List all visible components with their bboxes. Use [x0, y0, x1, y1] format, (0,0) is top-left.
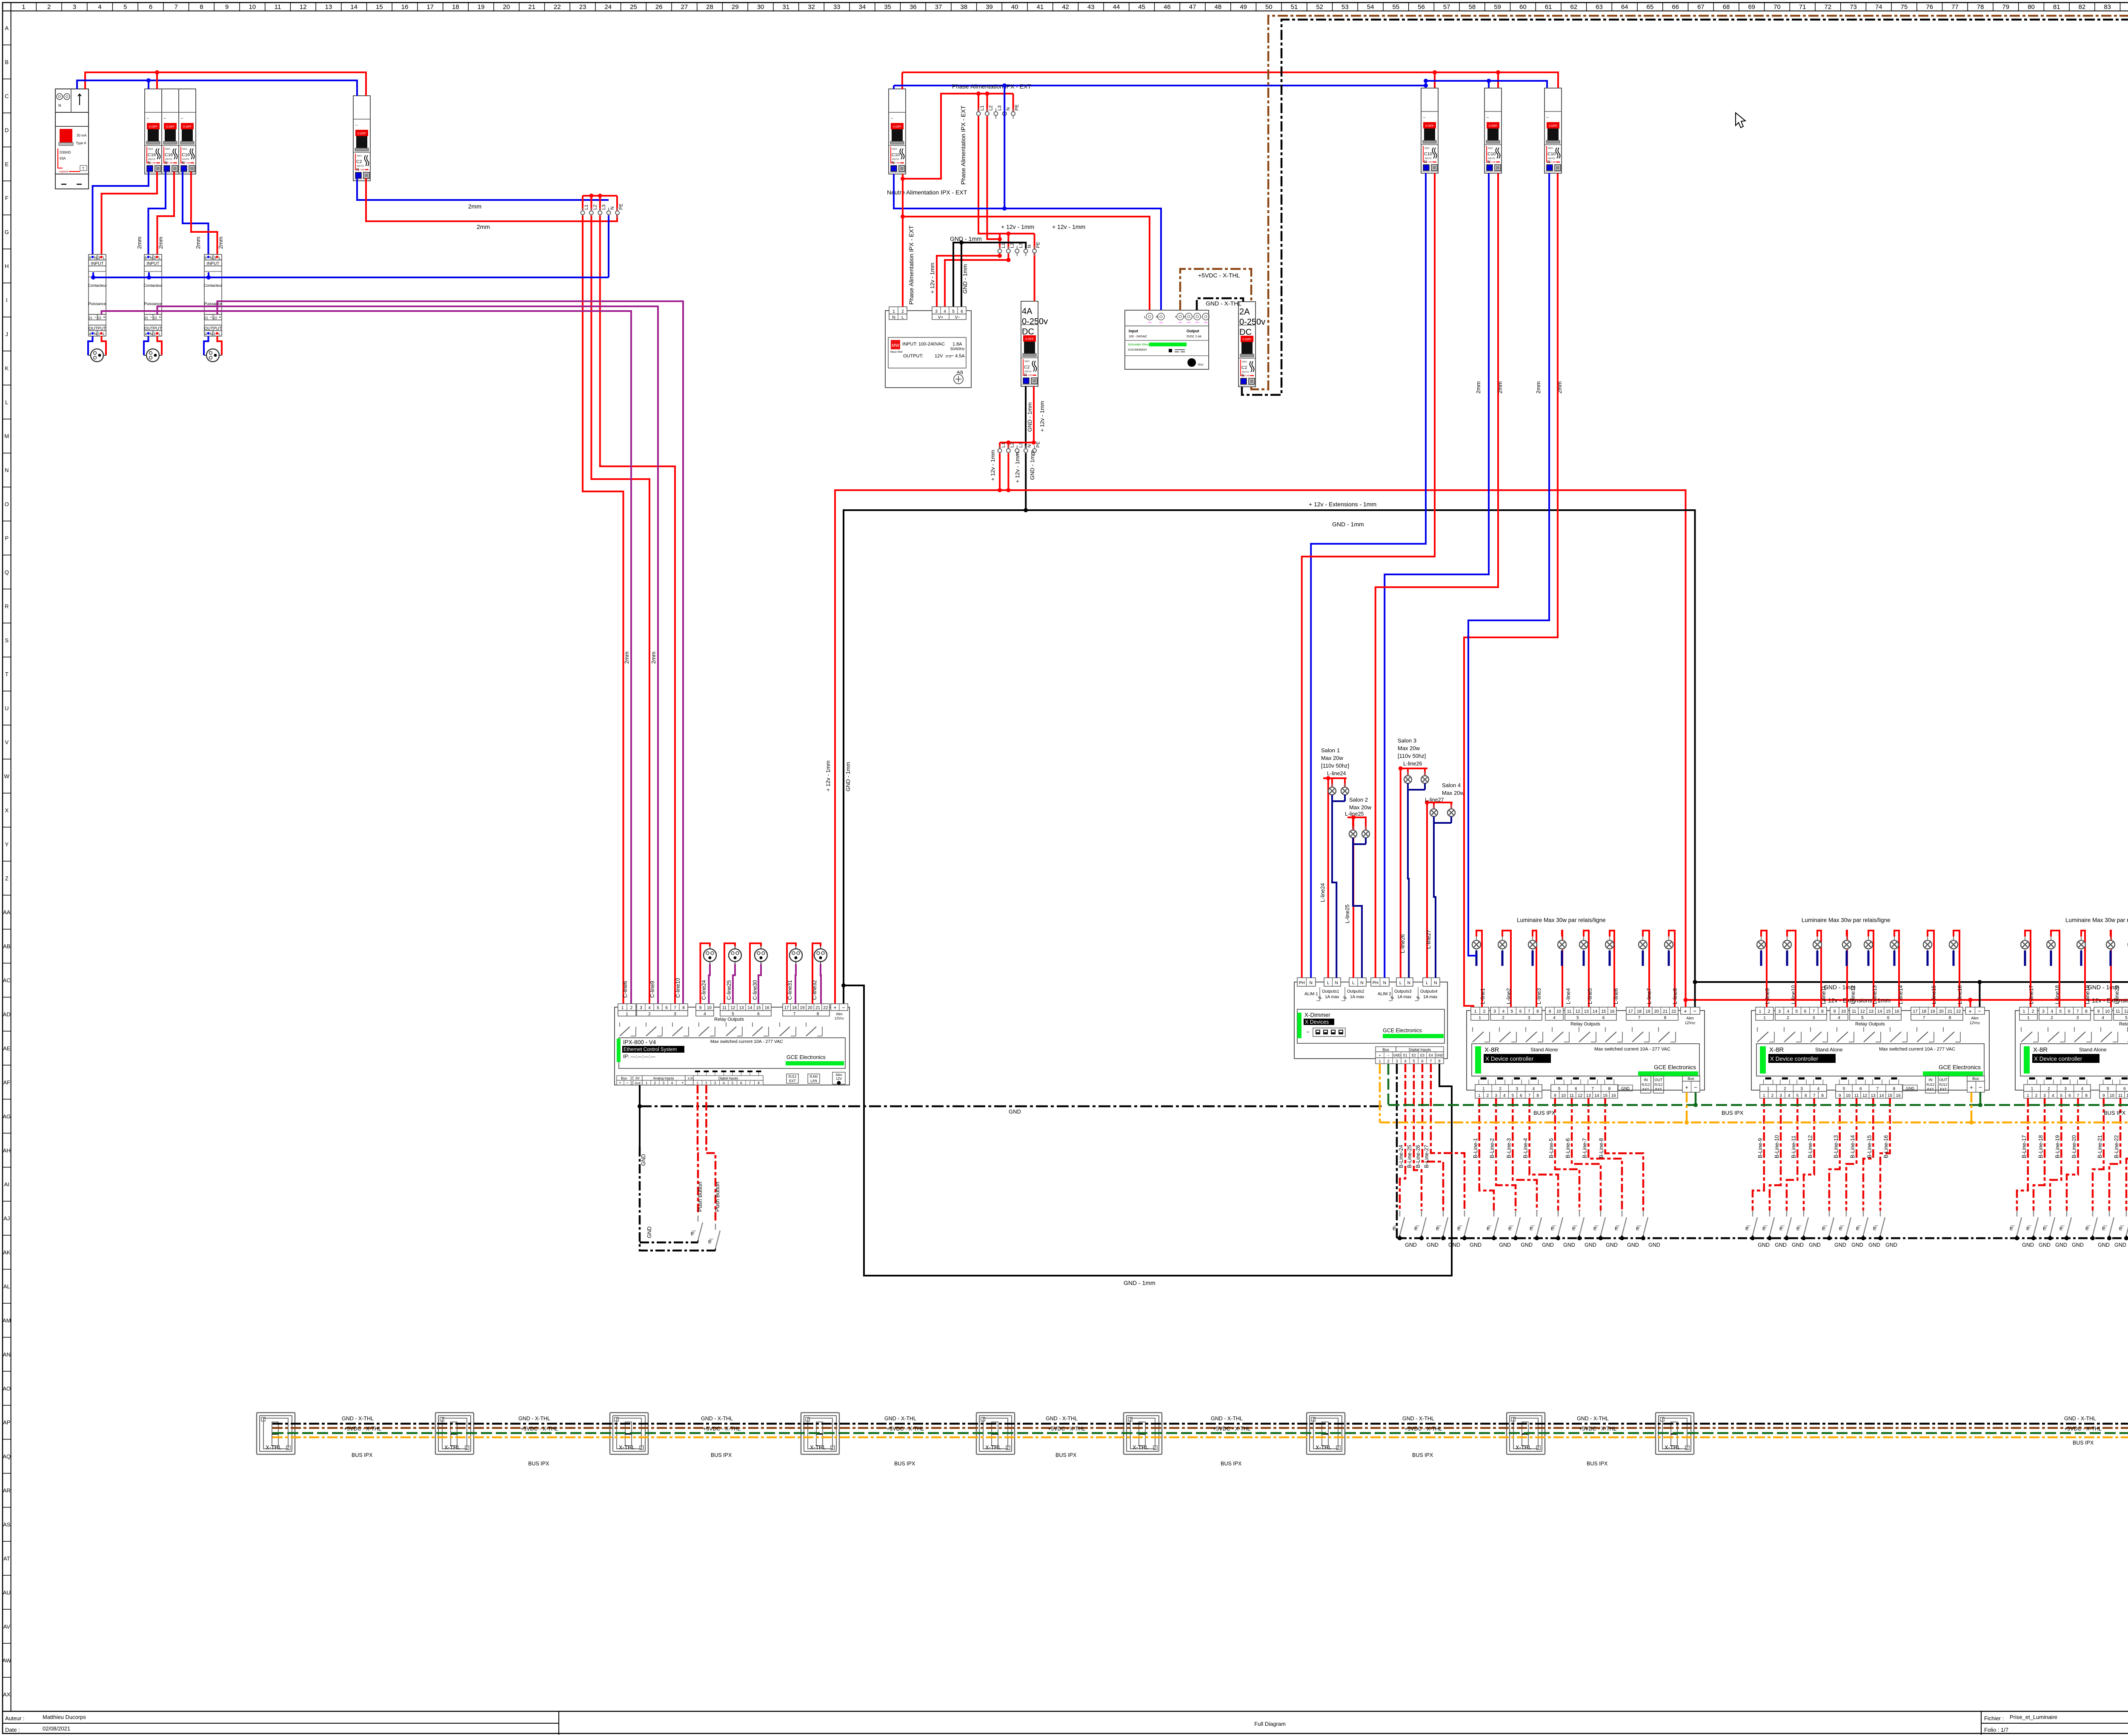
- svg-text:16: 16: [401, 3, 409, 11]
- svg-text:5: 5: [2107, 1087, 2109, 1091]
- svg-text:3: 3: [1495, 1094, 1497, 1098]
- svg-text:4: 4: [1404, 1059, 1406, 1063]
- svg-text:IN: IN: [1929, 1078, 1933, 1082]
- svg-text:B-Line-13: B-Line-13: [1833, 1135, 1839, 1158]
- svg-text:63: 63: [1596, 3, 1603, 11]
- svg-text:1A max: 1A max: [1325, 995, 1339, 999]
- svg-text:PE: PE: [1036, 441, 1041, 448]
- svg-text:22: 22: [1671, 1009, 1676, 1014]
- svg-text:N: N: [1407, 981, 1410, 985]
- svg-text:E: E: [1414, 1226, 1417, 1231]
- svg-text:Contacteur: Contacteur: [143, 283, 162, 288]
- svg-text:~: ~: [1423, 115, 1425, 120]
- svg-text:64: 64: [1621, 3, 1628, 11]
- svg-text:2: 2: [1499, 1087, 1502, 1091]
- svg-text:+5VDC - X-THL: +5VDC - X-THL: [1198, 272, 1240, 279]
- svg-text:9A63: 9A63: [1424, 147, 1430, 150]
- svg-text:V−: V−: [955, 315, 961, 320]
- svg-text:Matthieu Ducorps: Matthieu Ducorps: [43, 1714, 86, 1720]
- svg-text:9: 9: [1554, 1094, 1556, 1098]
- svg-text:DC: DC: [1022, 327, 1034, 337]
- svg-text:1: 1: [1482, 1087, 1485, 1091]
- svg-text:MW: MW: [892, 343, 899, 348]
- svg-text:X-THL: X-THL: [1316, 1444, 1332, 1450]
- svg-text:11: 11: [722, 1006, 727, 1011]
- svg-text:AG: AG: [3, 1113, 11, 1119]
- svg-text:0 OFF: 0 OFF: [183, 126, 192, 128]
- svg-text:N: N: [1024, 373, 1027, 377]
- svg-text:C-line10: C-line10: [675, 978, 681, 998]
- svg-text:U: U: [5, 705, 9, 711]
- svg-text:RJ12: RJ12: [1939, 1083, 1948, 1087]
- svg-text:22: 22: [823, 1006, 828, 1011]
- svg-text:Outputs3: Outputs3: [1394, 989, 1412, 994]
- svg-text:0 OFF: 0 OFF: [1425, 125, 1434, 128]
- svg-text:INPUT: INPUT: [91, 262, 104, 266]
- svg-text:AF: AF: [3, 1079, 10, 1085]
- svg-text:I: I: [6, 297, 8, 303]
- svg-text:5: 5: [1512, 1094, 1514, 1098]
- svg-text:11: 11: [1567, 1009, 1572, 1014]
- svg-text:3: 3: [2042, 1009, 2045, 1014]
- svg-text:L-line15: L-line15: [1931, 985, 1937, 1004]
- svg-text:E: E: [2026, 1226, 2029, 1231]
- svg-text:L-line24: L-line24: [1327, 771, 1346, 777]
- svg-text:GND - X-THL: GND - X-THL: [2064, 1416, 2096, 1422]
- svg-text:11: 11: [2118, 1094, 2123, 1098]
- svg-text:EXT: EXT: [789, 1079, 796, 1083]
- svg-text:3: 3: [2064, 1087, 2067, 1091]
- svg-text:Q: Q: [5, 569, 9, 575]
- svg-text:AB: AB: [3, 943, 10, 950]
- svg-text:4: 4: [1553, 1016, 1556, 1020]
- svg-text:33: 33: [833, 3, 841, 11]
- svg-text:Puissance: Puissance: [89, 302, 106, 306]
- svg-text:Salon 2: Salon 2: [1349, 797, 1368, 803]
- svg-text:30: 30: [757, 3, 764, 11]
- svg-text:Neutre Alimentation IPX - EXT: Neutre Alimentation IPX - EXT: [887, 189, 967, 196]
- svg-text:N: N: [1434, 981, 1437, 985]
- svg-text:1: 1: [892, 309, 895, 314]
- svg-text:B-Line-2: B-Line-2: [1489, 1138, 1495, 1158]
- svg-text:X-THL: X-THL: [985, 1444, 1001, 1450]
- svg-text:B-Line-5: B-Line-5: [1548, 1138, 1554, 1158]
- svg-text:L-line26: L-line26: [1403, 761, 1422, 767]
- svg-text:E: E: [1856, 1226, 1859, 1231]
- svg-text:48: 48: [1214, 3, 1221, 11]
- svg-text:GND: GND: [1448, 1242, 1460, 1248]
- svg-text:INPUT: INPUT: [207, 262, 220, 266]
- svg-text:83: 83: [2104, 3, 2111, 11]
- svg-text:Bus: Bus: [1382, 1048, 1389, 1052]
- svg-text:3.3V: 3.3V: [688, 1077, 694, 1080]
- svg-text:62: 62: [1570, 3, 1577, 11]
- svg-text:4: 4: [1817, 1087, 1820, 1091]
- svg-text:IN: IN: [1644, 1078, 1648, 1082]
- svg-text:GND - 1mm: GND - 1mm: [962, 264, 968, 294]
- svg-text:L-line4: L-line4: [1565, 988, 1571, 1004]
- svg-text:4.5A: 4.5A: [955, 354, 965, 359]
- svg-text:GND: GND: [1809, 1242, 1821, 1248]
- svg-text:2: 2: [630, 1006, 633, 1011]
- svg-text:LAN: LAN: [810, 1079, 817, 1083]
- svg-text:38: 38: [960, 3, 967, 11]
- svg-text:DC: DC: [1239, 328, 1252, 337]
- svg-text:14: 14: [1594, 1094, 1599, 1098]
- svg-text:EXT: EXT: [1642, 1088, 1649, 1091]
- svg-text:Push Button: Push Button: [697, 1182, 703, 1212]
- svg-text:+5VDC - X-THL: +5VDC - X-THL: [703, 1426, 741, 1432]
- svg-text:L: L: [219, 332, 221, 336]
- svg-text:Auteur :: Auteur :: [5, 1715, 25, 1722]
- svg-text:GND - 1mm: GND - 1mm: [1027, 403, 1033, 432]
- svg-text:Ethernet Control System: Ethernet Control System: [624, 1047, 677, 1052]
- svg-text:2: 2: [705, 1081, 707, 1085]
- svg-text:C10: C10: [1547, 151, 1556, 157]
- svg-text:RJ12: RJ12: [1927, 1083, 1935, 1087]
- svg-text:49: 49: [1240, 3, 1247, 11]
- svg-text:-: -: [1201, 315, 1202, 319]
- svg-text:Max 20w: Max 20w: [1398, 745, 1420, 751]
- svg-text:15: 15: [376, 3, 383, 11]
- svg-text:E: E: [2102, 1226, 2105, 1231]
- svg-text:5: 5: [732, 1012, 734, 1016]
- svg-text:X-Dimmer: X-Dimmer: [1304, 1012, 1330, 1018]
- svg-text:0 OFF: 0 OFF: [1025, 338, 1034, 341]
- svg-text:N: N: [1335, 981, 1338, 985]
- svg-text:T: T: [5, 671, 9, 677]
- svg-text:X-THL: X-THL: [1665, 1444, 1681, 1450]
- svg-text:59: 59: [1494, 3, 1501, 11]
- svg-text:9A63: 9A63: [892, 148, 897, 151]
- svg-text:C10: C10: [1487, 151, 1496, 157]
- svg-text:1.8A: 1.8A: [952, 342, 962, 347]
- svg-text:C16: C16: [165, 152, 173, 157]
- svg-text:22: 22: [1956, 1009, 1961, 1014]
- svg-text:15: 15: [1601, 1009, 1606, 1014]
- svg-text:W: W: [4, 773, 10, 779]
- svg-text:9A63: 9A63: [357, 155, 362, 157]
- svg-text:Gnd: Gnd: [635, 1082, 640, 1085]
- svg-text:L-line6: L-line6: [1613, 988, 1619, 1004]
- svg-text:17: 17: [1913, 1009, 1918, 1014]
- svg-text:GND - 1mm: GND - 1mm: [845, 762, 851, 791]
- svg-text:3: 3: [663, 1081, 665, 1085]
- svg-text:E: E: [2119, 1226, 2122, 1231]
- svg-text:GND: GND: [2072, 1242, 2084, 1248]
- svg-text:AW: AW: [3, 1657, 11, 1664]
- svg-text:29: 29: [732, 3, 739, 11]
- svg-text:EXT: EXT: [1927, 1088, 1934, 1091]
- svg-text:Contacteur: Contacteur: [203, 283, 222, 288]
- svg-text:4: 4: [2052, 1094, 2054, 1098]
- svg-text:28: 28: [706, 3, 713, 11]
- svg-text:B-Line-17: B-Line-17: [2021, 1135, 2027, 1158]
- svg-text:Outputs1: Outputs1: [1322, 989, 1339, 994]
- svg-text:13: 13: [1586, 1094, 1591, 1098]
- svg-text:20: 20: [1654, 1009, 1659, 1014]
- svg-text:13: 13: [325, 3, 332, 11]
- svg-text:OUT: OUT: [1939, 1078, 1948, 1082]
- svg-text:10: 10: [707, 1006, 712, 1011]
- svg-text:L-line1: L-line1: [1480, 988, 1486, 1004]
- svg-text:X Device controller: X Device controller: [1485, 1056, 1534, 1062]
- svg-text:15: 15: [1888, 1094, 1893, 1098]
- svg-text:X-THL: X-THL: [810, 1444, 826, 1450]
- svg-text:OUT: OUT: [1655, 1078, 1663, 1082]
- svg-text:1: 1: [1763, 1016, 1766, 1020]
- svg-text:Bus: Bus: [1972, 1076, 1979, 1081]
- svg-text:E: E: [2059, 1226, 2062, 1231]
- svg-text:B-Line-8: B-Line-8: [1599, 1138, 1605, 1158]
- svg-text:N: N: [610, 206, 615, 210]
- svg-text:C16: C16: [182, 152, 190, 157]
- svg-text:L-line11: L-line11: [1821, 985, 1827, 1004]
- svg-text:BUS IPX: BUS IPX: [1722, 1110, 1744, 1116]
- svg-text:3: 3: [73, 3, 76, 11]
- svg-text:F: F: [5, 195, 9, 201]
- svg-text:GND: GND: [1606, 1242, 1618, 1248]
- svg-text:E: E: [1551, 1226, 1554, 1231]
- svg-text:10: 10: [1846, 1094, 1851, 1098]
- svg-text:N: N: [210, 256, 213, 260]
- svg-text:E2: E2: [1412, 1054, 1416, 1057]
- svg-text:Analog Inputs: Analog Inputs: [653, 1076, 674, 1080]
- svg-text:0 OFF: 0 OFF: [358, 132, 366, 135]
- svg-text:1: 1: [98, 332, 100, 336]
- svg-text:N: N: [1360, 981, 1363, 985]
- svg-text:13: 13: [1871, 1094, 1876, 1098]
- svg-text:C-line30: C-line30: [752, 980, 758, 1000]
- svg-text:L: L: [103, 332, 105, 336]
- svg-text:31: 31: [782, 3, 789, 11]
- svg-text:B-Line-1: B-Line-1: [1473, 1138, 1479, 1158]
- svg-text:8: 8: [817, 1012, 819, 1016]
- svg-text:12Vcc: 12Vcc: [835, 1016, 844, 1020]
- svg-text:V: V: [5, 739, 9, 745]
- svg-text:+: +: [1970, 1084, 1973, 1091]
- svg-text:3: 3: [2043, 1094, 2046, 1098]
- svg-text:2mm: 2mm: [624, 651, 630, 664]
- svg-text:12: 12: [300, 3, 307, 11]
- svg-text:GND - X-THL: GND - X-THL: [342, 1416, 374, 1422]
- svg-text:N: N: [1310, 981, 1313, 985]
- svg-text:41: 41: [1037, 3, 1044, 11]
- svg-text:L: L: [159, 332, 161, 336]
- svg-text:1: 1: [1479, 1016, 1481, 1020]
- svg-text:2mm: 2mm: [468, 203, 481, 210]
- svg-text:5: 5: [1558, 1087, 1561, 1091]
- svg-text:C16: C16: [148, 152, 156, 157]
- svg-text:B-Line-20: B-Line-20: [2071, 1135, 2077, 1158]
- svg-text:N: N: [94, 256, 97, 260]
- svg-text:2A: 2A: [1239, 307, 1250, 317]
- svg-text:1: 1: [626, 1012, 628, 1016]
- svg-text:BUS IPX: BUS IPX: [711, 1452, 732, 1458]
- svg-text:8: 8: [2085, 1009, 2088, 1014]
- svg-text:Contacteur: Contacteur: [88, 283, 106, 288]
- svg-text:9: 9: [225, 3, 229, 11]
- svg-text:60: 60: [1519, 3, 1527, 11]
- svg-text:2: 2: [2048, 1087, 2050, 1091]
- svg-text:27: 27: [681, 3, 688, 11]
- svg-text:5VDC 2.4A: 5VDC 2.4A: [1187, 335, 1201, 338]
- svg-text:−: −: [94, 315, 97, 320]
- svg-text:GND - X-THL: GND - X-THL: [1402, 1416, 1434, 1422]
- svg-text:B-Line-11: B-Line-11: [1790, 1136, 1796, 1158]
- svg-text:1A max: 1A max: [1423, 995, 1437, 999]
- svg-text:B-Line-19: B-Line-19: [2054, 1135, 2060, 1158]
- svg-text:L3: L3: [997, 106, 1002, 111]
- svg-text:L3: L3: [601, 205, 606, 210]
- svg-text:AJ: AJ: [3, 1215, 10, 1222]
- svg-text:Max 20w: Max 20w: [1321, 755, 1344, 761]
- svg-text:4: 4: [2081, 1087, 2084, 1091]
- svg-text:15: 15: [1603, 1094, 1608, 1098]
- svg-text:78: 78: [1977, 3, 1984, 11]
- svg-text:X-8R: X-8R: [1484, 1046, 1499, 1054]
- svg-text:2mm: 2mm: [1497, 381, 1503, 394]
- svg-text:E: E: [1779, 1226, 1782, 1231]
- svg-text:B-Line-16: B-Line-16: [1883, 1135, 1889, 1158]
- svg-text:Z: Z: [5, 875, 9, 882]
- svg-text:E: E: [2043, 1226, 2046, 1231]
- svg-text:10: 10: [2110, 1094, 2115, 1098]
- svg-text:GND: GND: [2098, 1242, 2110, 1248]
- svg-text:18: 18: [792, 1006, 797, 1011]
- svg-text:3: 3: [1813, 1016, 1815, 1020]
- svg-text:4: 4: [2051, 1009, 2053, 1014]
- svg-text:+: +: [1175, 315, 1177, 319]
- svg-text:2: 2: [47, 3, 51, 11]
- svg-text:16: 16: [1610, 1009, 1615, 1014]
- svg-text:GND: GND: [1427, 1242, 1439, 1248]
- svg-text:7: 7: [793, 1012, 796, 1016]
- svg-text:51: 51: [1291, 3, 1298, 11]
- svg-text:1: 1: [22, 3, 25, 11]
- svg-text:1: 1: [1763, 1094, 1765, 1098]
- svg-text:H: H: [5, 263, 9, 269]
- svg-text:GND: GND: [646, 1226, 652, 1238]
- svg-text:Date :: Date :: [5, 1727, 20, 1733]
- svg-text:7: 7: [1528, 1094, 1531, 1098]
- svg-text:2: 2: [1387, 1059, 1389, 1063]
- svg-text:9: 9: [1549, 1009, 1551, 1014]
- svg-text:17: 17: [1628, 1009, 1633, 1014]
- svg-text:22: 22: [153, 316, 157, 320]
- svg-text:36: 36: [910, 3, 917, 11]
- svg-text:Phase Alimentation IPX - EXT: Phase Alimentation IPX - EXT: [952, 83, 1031, 90]
- svg-text:1: 1: [1759, 1009, 1762, 1014]
- svg-text:B-Line-7: B-Line-7: [1582, 1138, 1587, 1158]
- svg-text:BUS IPX: BUS IPX: [894, 1461, 915, 1467]
- svg-text:Bus: Bus: [621, 1076, 627, 1080]
- svg-text:17: 17: [784, 1006, 789, 1011]
- svg-text:L-line9: L-line9: [1765, 988, 1770, 1004]
- svg-text:Phase Alimentation IPX - EXT: Phase Alimentation IPX - EXT: [960, 106, 967, 185]
- svg-text:12Vcc: 12Vcc: [1685, 1021, 1696, 1025]
- svg-text:E: E: [1839, 1226, 1842, 1231]
- svg-text:PE: PE: [1015, 104, 1020, 111]
- svg-text:4: 4: [944, 309, 946, 314]
- svg-text:2: 2: [1483, 1009, 1486, 1014]
- svg-text:E: E: [1487, 1226, 1490, 1231]
- svg-text:3: 3: [1779, 1094, 1782, 1098]
- svg-text:L-line8: L-line8: [1672, 988, 1678, 1004]
- svg-text:X-THL: X-THL: [266, 1444, 282, 1450]
- svg-text:20: 20: [808, 1006, 813, 1011]
- svg-text:19: 19: [1930, 1009, 1935, 1014]
- svg-text:9A63: 9A63: [148, 148, 153, 151]
- svg-text:14: 14: [1879, 1094, 1884, 1098]
- svg-text:79: 79: [2002, 3, 2009, 11]
- svg-text:Puissance: Puissance: [144, 302, 162, 306]
- svg-text:Relay Outputs: Relay Outputs: [2119, 1022, 2128, 1027]
- svg-text:4: 4: [1788, 1094, 1790, 1098]
- svg-text:21: 21: [204, 316, 208, 320]
- svg-text:16: 16: [764, 1006, 769, 1011]
- svg-text:4: 4: [1503, 1094, 1506, 1098]
- svg-text:61: 61: [1545, 3, 1552, 11]
- svg-text:3: 3: [214, 256, 216, 260]
- svg-text:A: A: [5, 25, 9, 31]
- svg-text:GND: GND: [2022, 1242, 2034, 1248]
- svg-text:V+: V+: [938, 315, 944, 320]
- svg-text:Salon 1: Salon 1: [1321, 747, 1340, 754]
- svg-text:6: 6: [149, 3, 152, 11]
- svg-text:76: 76: [1926, 3, 1933, 11]
- svg-text:70: 70: [1773, 3, 1781, 11]
- svg-text:5: 5: [1413, 1059, 1415, 1063]
- svg-text:N: N: [1487, 160, 1490, 164]
- svg-text:8: 8: [1949, 1016, 1951, 1020]
- svg-text:−: −: [626, 1081, 628, 1085]
- svg-text:1A max: 1A max: [1397, 995, 1411, 999]
- svg-text:1: 1: [1474, 1009, 1477, 1014]
- svg-text:10: 10: [249, 3, 256, 11]
- svg-text:D: D: [5, 127, 9, 133]
- svg-text:X Devices: X Devices: [1305, 1019, 1329, 1025]
- svg-text:Mean Well: Mean Well: [890, 351, 902, 354]
- svg-text:3: 3: [935, 309, 938, 314]
- svg-text:12V: 12V: [836, 1077, 842, 1081]
- svg-text:5: 5: [2059, 1009, 2062, 1014]
- svg-text:L-line26: L-line26: [1400, 934, 1406, 953]
- svg-text:L-line20: L-line20: [2114, 985, 2120, 1004]
- svg-text:AL: AL: [3, 1283, 10, 1290]
- svg-text:+ 12v - 1mm: + 12v - 1mm: [929, 263, 935, 294]
- svg-text:7: 7: [749, 1081, 751, 1085]
- svg-text:INPUT: INPUT: [147, 262, 160, 266]
- svg-text:L-line27: L-line27: [1426, 930, 1432, 949]
- svg-text:+: +: [1379, 1054, 1381, 1057]
- svg-text:−: −: [150, 315, 152, 320]
- svg-text:B-Line-15: B-Line-15: [1866, 1135, 1872, 1158]
- svg-text:N: N: [58, 103, 61, 108]
- svg-text:7: 7: [1923, 1016, 1925, 1020]
- svg-text:8: 8: [1821, 1094, 1824, 1098]
- svg-text:GND: GND: [1758, 1242, 1770, 1248]
- svg-text:GND: GND: [1906, 1086, 1915, 1091]
- svg-text:AR: AR: [3, 1488, 11, 1494]
- svg-text:L-line5: L-line5: [1587, 988, 1593, 1004]
- svg-text:3: 3: [154, 256, 156, 260]
- svg-text:5: 5: [2060, 1094, 2063, 1098]
- svg-text:20: 20: [503, 3, 510, 11]
- svg-text:B-Line-4: B-Line-4: [1523, 1138, 1529, 1158]
- svg-text:3: 3: [1778, 1009, 1781, 1014]
- svg-text:+ 12v - 1mm: + 12v - 1mm: [1052, 223, 1085, 230]
